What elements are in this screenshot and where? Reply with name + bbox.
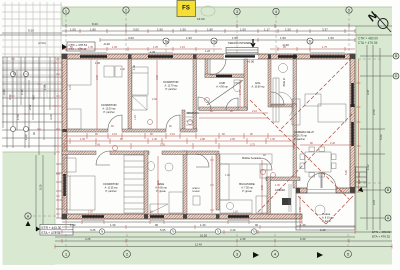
svg-text:1.20: 1.20 <box>233 211 238 214</box>
bedroom3 bed <box>64 176 95 210</box>
spatiu tehnic red dim <box>210 156 214 213</box>
svg-text:P: gresie: P: gresie <box>242 190 252 193</box>
svg-text:2.35: 2.35 <box>261 185 264 190</box>
entrance steps outside <box>226 48 258 55</box>
svg-text:90: 90 <box>255 223 259 227</box>
svg-text:Tc: Tc <box>308 39 312 43</box>
svg-text:1.50: 1.50 <box>180 28 186 32</box>
svg-text:1.50: 1.50 <box>240 28 246 32</box>
svg-text:3.25: 3.25 <box>85 237 91 241</box>
top dimension texts <box>28 17 334 40</box>
svg-text:1.90: 1.90 <box>157 28 163 32</box>
svg-text:60: 60 <box>32 131 36 135</box>
inner chain along right wall <box>357 59 361 192</box>
red roof projection diagonals <box>250 58 353 224</box>
svg-text:1.26: 1.26 <box>205 49 211 53</box>
CTR box top-left <box>38 41 110 51</box>
svg-text:ETA + 479.11: ETA + 479.11 <box>42 231 61 235</box>
svg-text:1.65: 1.65 <box>43 84 47 90</box>
svg-text:DORMITOR: DORMITOR <box>163 80 178 84</box>
revision cloud near FS <box>201 6 215 16</box>
windfang door bar <box>216 75 232 77</box>
svg-text:2.50: 2.50 <box>372 109 376 115</box>
yellow FS marker <box>177 1 196 17</box>
svg-text:3.05: 3.05 <box>160 144 165 147</box>
svg-text:Ta: Ta <box>164 39 168 43</box>
svg-text:4.05: 4.05 <box>156 75 159 80</box>
svg-text:5.05: 5.05 <box>345 170 348 175</box>
svg-text:Mobilier bucatarie: Mobilier bucatarie <box>242 157 262 160</box>
windows on bottom wall <box>82 215 249 218</box>
svg-text:4: 4 <box>275 10 277 14</box>
svg-text:3: 3 <box>236 10 238 14</box>
svg-text:1.35: 1.35 <box>150 50 156 54</box>
red dim texts inside rooms <box>96 68 302 212</box>
svg-text:1.50: 1.50 <box>285 28 291 32</box>
svg-text:8.20: 8.20 <box>92 22 98 26</box>
dining table <box>305 152 331 172</box>
svg-text:3.40: 3.40 <box>8 94 12 100</box>
svg-text:5: 5 <box>348 8 350 12</box>
svg-text:BAIE M.: BAIE M. <box>283 77 286 86</box>
svg-text:3.43: 3.43 <box>95 144 100 147</box>
tick marks on top dim lines <box>66 24 355 42</box>
svg-text:2.10: 2.10 <box>112 133 117 136</box>
svg-text:2: 2 <box>125 8 127 12</box>
CTR box top-right <box>358 37 378 46</box>
svg-text:1.30: 1.30 <box>300 223 306 227</box>
svg-text:2.00: 2.00 <box>152 98 157 101</box>
terrace table <box>315 205 325 215</box>
svg-text:1.17: 1.17 <box>264 28 270 32</box>
svg-text:3.75: 3.75 <box>250 144 255 147</box>
camara dark cabinet <box>282 198 291 205</box>
svg-text:2.10: 2.10 <box>170 133 175 136</box>
svg-text:1.15: 1.15 <box>180 46 185 49</box>
svg-text:1.80: 1.80 <box>90 28 96 32</box>
svg-text:4.20: 4.20 <box>49 114 53 120</box>
svg-text:P: parchet: P: parchet <box>104 111 115 114</box>
svg-text:1.70: 1.70 <box>239 90 242 95</box>
svg-text:1.90: 1.90 <box>70 223 76 227</box>
svg-text:6x17.5cm: 6x17.5cm <box>357 173 361 184</box>
svg-text:90: 90 <box>155 223 159 227</box>
svg-text:1.35: 1.35 <box>152 138 157 141</box>
north symbol <box>366 9 391 32</box>
svg-text:5.80: 5.80 <box>379 134 383 140</box>
svg-text:1.35: 1.35 <box>88 46 93 49</box>
svg-text:4.05: 4.05 <box>96 75 99 80</box>
svg-text:12.40: 12.40 <box>195 243 202 247</box>
svg-text:SPATIU: SPATIU <box>192 187 200 190</box>
svg-text:5.05: 5.05 <box>160 228 166 232</box>
svg-text:3: 3 <box>236 253 238 257</box>
svg-text:+0.00: +0.00 <box>247 60 255 64</box>
terrace outline bottom-right <box>296 193 355 230</box>
svg-text:2.05: 2.05 <box>230 138 235 141</box>
inner chain along left wall <box>56 57 60 218</box>
exterior top wall <box>62 54 355 59</box>
svg-text:P: beton: P: beton <box>322 220 332 223</box>
exterior bottom wall <box>62 214 302 219</box>
svg-text:1.40: 1.40 <box>120 68 125 71</box>
top axis bubbles <box>63 7 352 15</box>
svg-text:-0.20: -0.20 <box>103 42 110 46</box>
svg-text:1: 1 <box>65 9 67 13</box>
svg-text:3.00: 3.00 <box>128 36 134 40</box>
small door tag circles <box>113 98 276 178</box>
svg-text:2.52: 2.52 <box>28 104 32 110</box>
wardrobe strip dormitor3 <box>124 155 144 213</box>
svg-text:B: B <box>387 188 389 192</box>
living room bottom wall segments with french door gap <box>296 188 307 193</box>
svg-text:1.30: 1.30 <box>200 223 206 227</box>
svg-text:3.37: 3.37 <box>322 28 328 32</box>
svg-text:HOL: HOL <box>255 81 261 85</box>
svg-text:1.05: 1.05 <box>112 46 117 49</box>
exterior left wall <box>62 54 67 219</box>
svg-text:DORMITOR: DORMITOR <box>103 182 118 186</box>
svg-text:ETR + 443.30: ETR + 443.30 <box>42 226 62 230</box>
svg-text:3.15: 3.15 <box>69 85 72 90</box>
svg-text:1.90: 1.90 <box>186 36 192 40</box>
svg-text:CTA + 479.35: CTA + 479.35 <box>358 41 378 45</box>
svg-text:1.30: 1.30 <box>110 223 116 227</box>
svg-text:1.50: 1.50 <box>328 36 334 40</box>
svg-text:3.00: 3.00 <box>133 28 139 32</box>
interior red dim chains: corridor band <box>64 60 352 230</box>
svg-text:1.05: 1.05 <box>70 28 76 32</box>
exterior steps right side <box>356 167 367 187</box>
svg-text:1.20: 1.20 <box>88 211 93 214</box>
svg-text:1: 1 <box>65 253 67 257</box>
svg-text:16.90: 16.90 <box>197 17 205 21</box>
window sill lines above top wall <box>80 52 345 54</box>
windows on right wall <box>351 83 354 107</box>
windows on top wall <box>80 55 345 58</box>
kitchen counter <box>220 154 272 164</box>
svg-text:1.50: 1.50 <box>16 114 20 120</box>
svg-text:2.10: 2.10 <box>252 110 257 113</box>
svg-text:1.20: 1.20 <box>24 134 28 140</box>
svg-text:TEHNIC: TEHNIC <box>192 191 201 193</box>
svg-text:3.25: 3.25 <box>90 228 96 232</box>
svg-text:CTR + 480.00: CTR + 480.00 <box>358 37 378 41</box>
extra kitchen furniture <box>220 164 336 212</box>
svg-text:Tb: Tb <box>212 39 216 43</box>
svg-text:2.07: 2.07 <box>372 199 376 205</box>
gray site grid top-left <box>2 2 62 98</box>
svg-text:1.50: 1.50 <box>280 36 286 40</box>
bedroom2 bed <box>132 67 148 95</box>
interior walls: upper row <box>128 59 297 188</box>
svg-text:1.80: 1.80 <box>207 28 213 32</box>
svg-text:P: parchet: P: parchet <box>294 138 305 141</box>
svg-text:1.50: 1.50 <box>232 36 238 40</box>
bathroom fixtures <box>148 162 155 171</box>
red tick marks left column <box>11 59 57 146</box>
svg-text:1.20: 1.20 <box>134 115 137 120</box>
svg-text:1.75: 1.75 <box>322 46 327 49</box>
svg-text:2.10: 2.10 <box>20 89 24 95</box>
door arcs <box>96 59 336 188</box>
spatiu tehnic boiler <box>193 196 200 205</box>
room labels <box>101 77 334 223</box>
corridor south wall y151 / lower rooms <box>62 151 300 214</box>
svg-text:1.20: 1.20 <box>320 228 326 232</box>
svg-text:6.30: 6.30 <box>300 237 306 241</box>
svg-text:A: 4.90 mp: A: 4.90 mp <box>216 86 228 89</box>
corridor north wall y129 <box>67 129 197 132</box>
baie m fixtures <box>279 64 288 73</box>
svg-text:95: 95 <box>12 71 16 75</box>
left axis bubbles <box>11 72 29 132</box>
svg-text:DORMITOR: DORMITOR <box>101 103 116 107</box>
svg-text:9.20: 9.20 <box>28 29 34 33</box>
bedroom1 <box>104 66 114 77</box>
svg-text:5: 5 <box>347 253 349 257</box>
svg-text:3.40: 3.40 <box>230 228 236 232</box>
svg-text:1.25: 1.25 <box>153 46 158 49</box>
svg-text:ETA + 479.32: ETA + 479.32 <box>372 235 390 239</box>
top dimension lines <box>0 26 392 40</box>
svg-text:2.50: 2.50 <box>157 180 160 185</box>
svg-text:(2.00): (2.00) <box>38 41 46 45</box>
svg-text:16.50: 16.50 <box>200 234 207 238</box>
svg-text:1.30: 1.30 <box>275 184 280 187</box>
svg-text:2: 2 <box>126 253 128 257</box>
svg-text:Terasa: Terasa <box>322 212 331 216</box>
svg-text:1.55: 1.55 <box>299 207 302 212</box>
living sofa <box>318 104 346 122</box>
axis dashed lines through green bottom band <box>33 59 381 250</box>
svg-text:1.30: 1.30 <box>270 138 275 141</box>
extra tiny dim texts near walls <box>69 85 348 214</box>
svg-text:4.87: 4.87 <box>32 94 36 100</box>
svg-text:1.40: 1.40 <box>132 64 136 70</box>
misc small texts upper area <box>95 49 211 70</box>
svg-text:3.40: 3.40 <box>2 89 6 95</box>
svg-text:P: parchet: P: parchet <box>106 190 117 193</box>
svg-text:2.88: 2.88 <box>200 138 205 141</box>
svg-text:BUCATARIE: BUCATARIE <box>239 182 255 186</box>
svg-text:FS: FS <box>182 6 190 12</box>
exterior right wall <box>350 54 355 192</box>
svg-text:2.35: 2.35 <box>240 237 246 241</box>
svg-text:P: parchet: P: parchet <box>166 88 177 91</box>
svg-text:DRESSING: DRESSING <box>187 112 200 115</box>
svg-text:CAMARA: CAMARA <box>275 189 286 192</box>
svg-text:2.40: 2.40 <box>330 142 335 145</box>
svg-text:CAB: CAB <box>219 81 225 85</box>
svg-text:TERASA INTRARE: TERASA INTRARE <box>228 41 251 45</box>
window dim chain above top wall <box>62 47 355 51</box>
svg-text:4: 4 <box>274 253 276 257</box>
dark structural corners <box>62 54 355 219</box>
top axis extension dashed lines <box>66 13 349 58</box>
cab toilet <box>234 83 241 92</box>
window on left wall <box>63 174 66 196</box>
svg-text:CAMERA DE ZI: CAMERA DE ZI <box>294 130 314 134</box>
svg-text:1.90: 1.90 <box>225 174 230 177</box>
dressing shelves <box>186 112 193 114</box>
entrance opening in top wall <box>224 54 258 59</box>
svg-text:1.35: 1.35 <box>80 138 85 141</box>
svg-text:1.00: 1.00 <box>95 61 101 65</box>
svg-text:A: 10.80 mp: A: 10.80 mp <box>252 86 266 89</box>
svg-text:3.47: 3.47 <box>366 89 370 95</box>
svg-text:9.20: 9.20 <box>39 184 43 190</box>
